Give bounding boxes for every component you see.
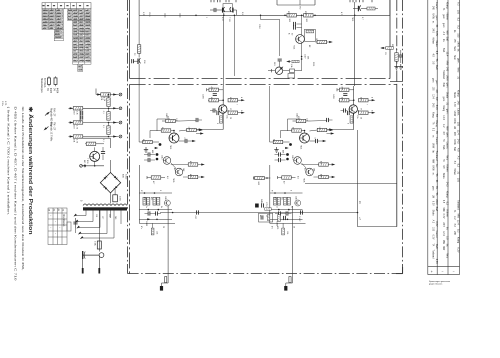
ch1 bias rail mid [139,209,172,211]
svg-text:Baß: Baß [442,145,444,150]
svg-text:8,2: 8,2 [457,229,460,233]
svg-text:T405: T405 [172,178,174,182]
svg-text:245: 245 [446,67,449,72]
switch table side component [75,218,77,228]
svg-text:+: + [431,270,433,274]
svg-text:24,5: 24,5 [432,103,434,108]
svg-text:gem.: gem. [435,15,438,21]
svg-text:Spannungen gemessen: Spannungen gemessen [429,281,450,283]
svg-text:Netz: Netz [453,46,456,52]
svg-text:24,5: 24,5 [442,222,444,227]
output wire caps [197,210,199,214]
svg-text:lin.: lin. [432,150,434,153]
ch2 low stem resistor [282,223,284,228]
svg-text:Netz: Netz [457,67,460,73]
R310 lower box [288,74,295,79]
ch1 pre resistor [151,176,161,179]
svg-text:4434: 4434 [56,88,58,94]
svg-text:Höhen: Höhen [446,209,449,217]
chassis border left [127,0,129,274]
ch1 cap below top resistor [213,94,217,96]
top right transistor T401 [357,6,359,12]
svg-text:UKW: UKW [432,143,434,149]
svg-text:Netz: Netz [453,55,456,61]
volume pot P301 [275,67,282,74]
svg-text:4: 4 [240,97,242,98]
svg-text:12,4: 12,4 [432,94,434,99]
ch1 second resistor row [209,99,219,102]
ch2 base caps [344,108,346,112]
svg-text:T301: T301 [293,45,295,49]
rail resistor R301 [287,14,297,17]
svg-text:47: 47 [259,215,261,217]
box A right edge [389,0,391,79]
svg-text:re.: re. [432,135,435,138]
svg-text:C710: C710 [265,202,267,207]
svg-text:A 2: A 2 [457,156,460,160]
T101 top label ticks [210,0,212,2]
svg-text:24,5: 24,5 [457,139,460,144]
mains cord bar [83,254,100,256]
svg-text:25: 25 [360,117,362,119]
ch1 feedback caps [148,152,150,156]
svg-text:419: 419 [274,197,276,200]
svg-text:1n: 1n [145,206,147,208]
svg-text:gem.: gem. [435,80,438,86]
ch1 chassis ground [165,277,167,283]
svg-text:5: 5 [159,190,161,191]
ch2 emitter wire left [327,129,354,131]
svg-text:TA: TA [435,173,438,176]
svg-text:148: 148 [182,168,184,171]
svg-text:AM - ZF: AM - ZF [52,108,55,117]
input rows tie link [79,108,81,122]
box B top-right link [390,81,403,83]
vertical wire left [138,0,140,15]
top shield box [276,0,278,5]
bridge top lead [110,160,112,173]
svg-text:418: 418 [189,174,191,177]
ch1 low caps [148,211,150,215]
parts table block 3 [68,9,92,21]
input network row 3 [69,122,119,124]
svg-text:gegen Chassis: gegen Chassis [429,284,442,286]
input row 1 terminal [119,93,122,96]
svg-text:gem.: gem. [442,14,444,19]
ch2 top feed resistor [296,119,306,122]
svg-text:155: 155 [457,178,460,183]
svg-text:8,2: 8,2 [457,164,460,168]
ch2 third transistor [306,168,314,176]
ch2 module box corner [287,119,289,131]
svg-text:155: 155 [457,33,460,38]
svg-text:416: 416 [189,161,191,164]
svg-text:✱ Änderungen während der Produ: ✱ Änderungen während der Produktion [27,107,34,235]
svg-text:gem.: gem. [446,83,449,89]
svg-text:( linker Kanal ) C 700 ( recht: ( linker Kanal ) C 700 ( rechter Kanal )… [7,107,11,216]
svg-text:4433: 4433 [49,88,51,94]
svg-text:R301: R301 [287,11,289,16]
ch2 junction dots [289,143,292,146]
svg-text:12k: 12k [318,127,320,130]
input row 2 shunt resistor [107,112,110,121]
ch1 below-res marks [144,147,148,152]
svg-text:425: 425 [276,226,278,229]
IF transistor T301 [296,35,305,44]
svg-text:6,3V: 6,3V [435,221,438,226]
dual transistor T101 [223,4,232,12]
mains plug right [99,253,104,258]
ch2 right resistor row a [359,99,369,102]
chassis border right inner [396,0,398,84]
svg-text:−: − [453,269,455,273]
svg-text:418: 418 [320,174,322,177]
chassis border bottom [128,273,403,275]
svg-text:Baß: Baß [446,37,449,42]
ch1 bias rail top [139,192,172,194]
box A left edge [129,0,131,79]
svg-text:220: 220 [108,214,110,217]
svg-text:4,6: 4,6 [166,176,168,179]
svg-text:240: 240 [114,216,116,219]
svg-text:Baß: Baß [435,65,438,70]
right end grounds [394,64,398,69]
box B top edge [130,83,397,85]
svg-text:245: 245 [457,101,460,106]
svg-text:6: 6 [371,110,373,111]
right end RC pair [395,53,398,62]
input row 4 terminal [119,135,122,138]
svg-text:4,6: 4,6 [297,176,299,179]
ch2 low right parts [278,215,281,222]
mains plug left [82,251,84,259]
svg-text:UKW: UKW [446,75,449,81]
svg-text:Skala: Skala [432,210,434,216]
ch1 emitter resistor [220,116,223,123]
svg-text:0,6: 0,6 [142,139,144,142]
svg-text:Lautst.: Lautst. [457,108,460,116]
ch1 driver transistor [219,105,227,113]
box B right edge [396,84,398,226]
mid vertical wire 234 [233,15,235,76]
ch2 bias dots [274,192,276,194]
selector contacts [73,214,77,218]
rail ticks [164,13,166,17]
rail junction dots [223,15,225,17]
svg-text:C416: C416 [164,196,166,201]
input network row 2 [69,107,119,109]
input row 1 shunt resistor [107,98,110,107]
svg-text:Klang: Klang [446,2,449,9]
svg-text:Höhen: Höhen [446,164,449,172]
svg-text:0,2A: 0,2A [94,241,97,246]
svg-text:C402: C402 [165,113,167,118]
box B left edge [129,84,131,273]
svg-text:re.: re. [432,173,435,176]
svg-text:5: 5 [216,123,218,124]
ch1 low stem resistor [152,223,154,228]
ch2 mid resistor row 2 [319,175,329,178]
ch2 feedback caps [279,152,281,156]
main supply rail [139,14,390,16]
svg-text:417: 417 [283,181,285,184]
svg-text:419: 419 [143,197,145,200]
cord down leads [82,255,84,268]
ch2 low caps [279,211,281,215]
svg-text:Netz: Netz [446,155,449,161]
svg-text:12k: 12k [286,231,288,234]
svg-text:Höhen: Höhen [446,13,449,21]
svg-text:UKW: UKW [457,41,460,47]
svg-text:1,8: 1,8 [175,118,177,121]
ch1 left resistor [143,140,153,143]
svg-text:Lautst.: Lautst. [435,231,438,239]
lamp L2 [54,78,57,85]
svg-text:Im Laufe der Produktion ist de: Im Laufe der Produktion ist der Stromkre… [21,107,25,271]
ch1 bias resistors [143,197,146,205]
ch2 second resistor row [339,99,349,102]
T301 emitter chain [301,44,303,71]
svg-text:Skala: Skala [446,92,449,99]
svg-text:155: 155 [457,122,460,127]
svg-text:T401: T401 [351,17,353,21]
ch2 top resistor [339,88,349,91]
ch1 bias transistor [164,200,170,206]
ch1 output wire [160,212,358,214]
svg-text:Höhen: Höhen [453,168,455,175]
ch2 second resistor [292,129,302,132]
ch1 right resistor row b [228,111,238,114]
svg-text:24,5: 24,5 [435,105,438,110]
ch1 main vertical [222,86,224,130]
svg-text:1000: 1000 [119,196,121,202]
ch2 ground drop [291,206,293,283]
input network row 4 [69,136,119,138]
parts table block 1 [42,9,63,30]
voltage table column text [432,2,460,264]
ch2 bias rail top [270,192,303,194]
switch table [48,208,67,245]
svg-text:R302: R302 [304,11,306,16]
ch1 stage resistor right [187,128,197,131]
ch2 left resistor [273,140,283,143]
svg-text:127: 127 [101,216,103,219]
svg-text:Baß: Baß [435,244,438,249]
svg-text:lin.: lin. [446,227,449,231]
svg-text:UKW: UKW [435,199,438,205]
ch1 second resistor [161,129,171,132]
ch1 mid resistor row 2 [188,175,198,178]
ch1 feed parts right [196,118,198,122]
svg-text:MW: MW [446,30,449,35]
svg-text:gem.: gem. [457,58,460,64]
svg-text:D456: D456 [260,199,262,204]
svg-text:408: 408 [282,150,284,153]
svg-text:C412: C412 [161,155,163,160]
svg-text:6,3V: 6,3V [442,214,444,219]
ch2 bias rail mid [270,209,303,211]
svg-text:25: 25 [293,226,295,228]
svg-text:A 2: A 2 [457,2,460,6]
T301 collector box [305,29,316,41]
decoupling caps [301,15,303,34]
fuse [97,241,101,249]
svg-text:Klang: Klang [457,90,460,97]
svg-text:25: 25 [229,117,231,119]
svg-text:lin.: lin. [446,244,449,248]
parts table block 4 [73,20,91,64]
svg-text:6,3V: 6,3V [432,201,434,206]
ch2 bias transistor [295,200,301,206]
svg-text:Tonband: Tonband [457,200,460,210]
ch1 second transistor [163,157,171,165]
ch1 right resistor row a [228,99,238,102]
svg-text:Baß: Baß [442,48,444,53]
ch1 left vertical [138,86,140,142]
svg-text:UKW: UKW [453,139,455,145]
svg-text:T 801: T 801 [86,158,88,164]
svg-text:6,3V: 6,3V [435,259,438,264]
svg-text:D 455 ( linker Kanal ), D 457,: D 455 ( linker Kanal ), D 457, D 467 ( r… [14,107,18,281]
box A bottom edge [130,78,390,80]
svg-text:UKW: UKW [432,165,434,171]
svg-text:24,5: 24,5 [432,28,434,33]
svg-text:C350: C350 [124,174,126,180]
svg-text:148: 148 [313,168,315,171]
svg-text:Tonband: Tonband [432,250,434,260]
svg-text:MW: MW [446,61,449,66]
left transistor T102 [137,59,139,65]
input network row 1 [96,94,119,96]
svg-text:5k: 5k [160,206,162,208]
voltage table frame [428,0,460,275]
svg-text:1: 1 [205,17,207,18]
svg-text:D455: D455 [145,222,147,227]
ch1 first transistor [169,133,179,143]
ch2 below-res marks [274,147,278,152]
bridge bottom lead [110,193,112,204]
ch2 low box module [259,213,273,222]
chassis corner [396,273,403,275]
svg-text:7: 7 [366,104,368,105]
ch2 lower left L wire [269,165,271,223]
svg-text:0,22: 0,22 [221,17,223,21]
T301 collector resistor [306,30,314,33]
svg-text:R8: R8 [391,44,393,46]
svg-text:0,9: 0,9 [241,12,243,15]
ch2 low rail 3 [270,218,303,220]
mains transformer [83,204,127,211]
svg-text:421: 421 [281,197,283,200]
svg-text:12,4: 12,4 [442,115,444,120]
svg-text:FM - ZF: FM - ZF [52,122,54,131]
ch1 low rail 3 [139,218,172,220]
ch2 main vertical [353,86,355,130]
svg-text:Baß: Baß [453,147,455,152]
svg-text:re.: re. [432,21,435,24]
svg-text:8,2: 8,2 [457,25,460,29]
svg-text:TA: TA [432,122,435,125]
svg-text:T401: T401 [169,145,171,149]
svg-text:C 427: C 427 [298,216,300,222]
svg-text:6,3V: 6,3V [453,102,455,107]
junction row [82,165,104,167]
T102 lower lead [138,64,140,86]
svg-text:MW: MW [446,126,449,131]
svg-text:0,8: 0,8 [446,236,449,240]
svg-text:1,8: 1,8 [306,118,308,121]
ch2 chassis ground [289,277,291,283]
svg-text:−: − [442,269,444,273]
svg-text:C307: C307 [304,54,306,59]
svg-text:TA: TA [435,114,438,117]
svg-text:Skala: Skala [453,92,455,98]
svg-text:lin.: lin. [442,39,444,42]
vertical wire ch2 feed [354,15,356,86]
parts table block 2 [54,30,63,41]
svg-text:10,7: 10,7 [315,38,317,42]
svg-text:155: 155 [457,10,460,15]
svg-text:UKW: UKW [453,118,455,124]
svg-text:12,4: 12,4 [446,51,449,56]
row1 feed stub [95,89,97,95]
svg-text:gem.: gem. [432,78,434,83]
input row 2 terminal [119,107,122,110]
svg-text:1n: 1n [276,206,278,208]
svg-text:C402: C402 [296,113,298,118]
extra taps [120,211,122,225]
svg-text:4,7k: 4,7k [340,12,342,16]
ch1 third transistor [175,168,183,176]
svg-text:5: 5 [290,190,292,191]
parts table stem cell [78,64,83,71]
ch1 bias dots [144,192,146,194]
svg-text:6: 6 [240,110,242,111]
ch1 module box corner [156,119,158,131]
speaker loop top [305,183,397,185]
input row 3 terminal [119,121,122,124]
chassis border right outer [402,0,404,274]
svg-text:Tonband: Tonband [442,70,444,80]
svg-text:Lautst.: Lautst. [435,137,438,145]
svg-text:12,4: 12,4 [457,220,460,225]
svg-text:lin.: lin. [457,49,460,53]
svg-text:lin.: lin. [435,164,438,168]
legend item 2 [45,127,49,130]
pot feed cap [279,20,281,57]
ch2 driver transistor [349,105,357,113]
svg-text:12k: 12k [188,127,190,130]
svg-text:Klang: Klang [432,112,434,119]
legend item 1 [45,113,49,116]
rail stub at pot feed [260,15,262,19]
svg-text:TA: TA [442,159,445,162]
svg-text:TA: TA [435,192,438,195]
smoothing cap [113,195,118,202]
svg-text:24,5: 24,5 [446,182,449,187]
svg-text:Höhen: Höhen [432,37,434,44]
switch table side box [67,222,71,231]
svg-text:gem.: gem. [446,109,449,115]
svg-text:47n: 47n [140,226,142,229]
svg-text:12k: 12k [156,231,158,234]
svg-text:C412: C412 [291,155,293,160]
svg-text:47n: 47n [271,226,273,229]
lamp L1 [48,78,51,85]
input row 3 shunt resistor [107,126,110,135]
svg-text:gem.: gem. [442,97,444,102]
svg-text:TA: TA [432,243,435,246]
